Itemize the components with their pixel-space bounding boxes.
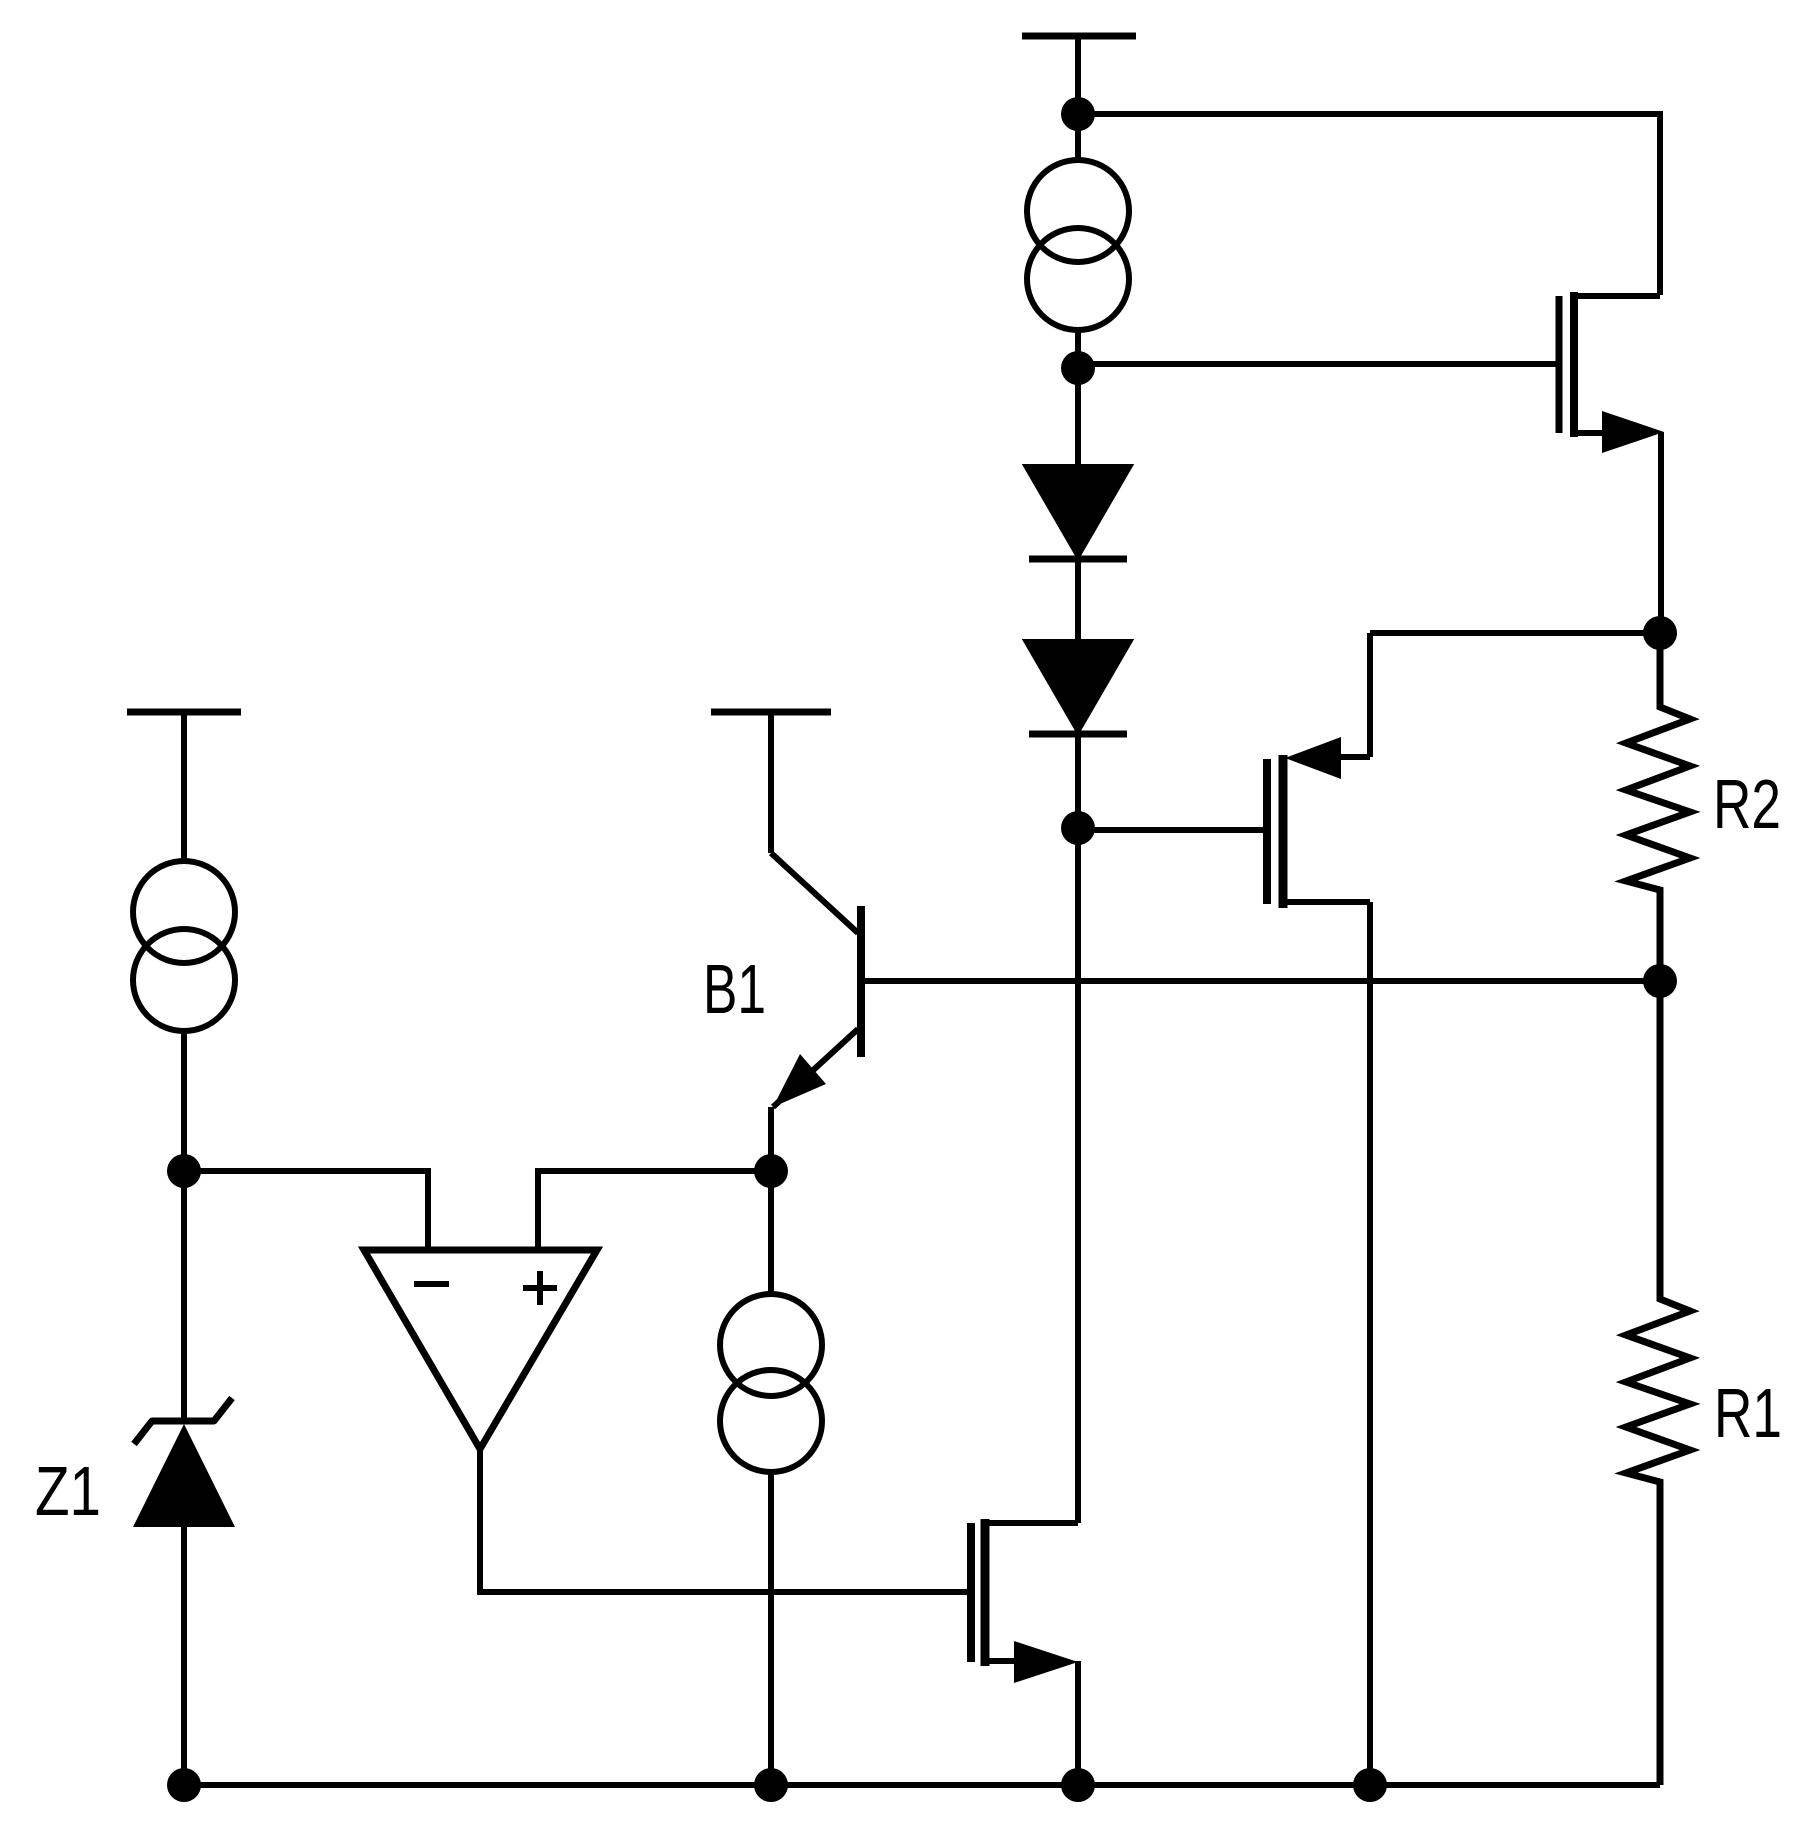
bottom rail wire [184, 1782, 1660, 1788]
svg-text:Z1: Z1 [35, 1452, 101, 1530]
svg-text:R2: R2 [1713, 765, 1781, 843]
power rail bar left [127, 709, 241, 716]
node F junction dot (R2 top) [1643, 616, 1677, 650]
wire D1 to D2 [1075, 560, 1081, 645]
wire op-amp output to M3 gate [480, 1446, 968, 1592]
current source I3 [720, 1294, 822, 1396]
wire I2 to node D [181, 1030, 187, 1424]
wire right rail down to M1 drain [1657, 111, 1663, 295]
transistor M3 [971, 1519, 1078, 1785]
wire VDD to node A [1075, 37, 1081, 162]
transistor M1 gate lead wire [1078, 361, 1556, 367]
resistor R1 [1626, 981, 1690, 1785]
current source I2 [133, 861, 235, 963]
wire D2 down through node C to M3 drain [1075, 735, 1081, 1523]
node A junction dot [1061, 97, 1095, 131]
bottom rail junction dots [167, 1768, 201, 1802]
diode D1 [1027, 467, 1129, 555]
current source I1 [1027, 160, 1129, 262]
zener diode Z1 [133, 1398, 235, 1527]
wire node A to right rail [1078, 111, 1660, 117]
svg-text:B1: B1 [703, 950, 766, 1028]
transistor B1 [771, 853, 861, 1107]
wire rail to current source I2 [181, 712, 187, 862]
wire node D to op-amp inverting input [184, 1171, 428, 1253]
wire B1 emitter to node E [768, 1107, 774, 1171]
wire I3 to bottom rail [768, 1471, 774, 1785]
power rail bar above B1 [711, 709, 831, 716]
node C junction dot [1061, 811, 1095, 845]
wire B1 base to divider node [861, 978, 1660, 984]
wire node E to current source I3 [768, 1171, 774, 1295]
resistor R2 [1626, 630, 1690, 981]
node G junction dot (divider) [1643, 964, 1677, 998]
wire rail to B1 collector [768, 712, 774, 853]
power rail VDD top bar [1022, 33, 1136, 40]
op-amp U1 [364, 1250, 597, 1449]
wire Z1 to bottom rail [181, 1527, 187, 1785]
wire I1 to diode D1 [1075, 328, 1081, 470]
diode D2 [1027, 642, 1129, 730]
transistor M1 [1559, 292, 1664, 633]
wire node E to op-amp non-inverting input [538, 1171, 771, 1253]
node B junction dot [1061, 351, 1095, 385]
transistor M2 (PMOS) [1267, 633, 1660, 1785]
transistor M2 gate lead wire [1078, 827, 1264, 833]
svg-text:R1: R1 [1714, 1374, 1782, 1452]
node D junction dot [167, 1154, 201, 1188]
node E junction dot [754, 1154, 788, 1188]
